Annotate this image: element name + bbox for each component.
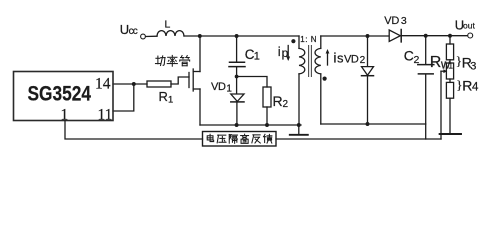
label ip (278, 44, 289, 60)
diode VD2 (362, 36, 374, 124)
label VD3 (384, 15, 407, 27)
node drain junction (198, 34, 202, 38)
svg-text:VD: VD (384, 15, 399, 27)
ground left (290, 125, 308, 135)
resistor R1 (147, 81, 171, 87)
svg-text:R: R (462, 77, 472, 93)
svg-text:1: 1 (226, 84, 232, 95)
node Uout terminal (468, 33, 473, 38)
transformer T1 secondary winding (315, 36, 321, 124)
svg-text:C: C (404, 48, 414, 64)
wire SG3524 pin14 (113, 83, 147, 85)
diode VD3 (389, 30, 467, 42)
label C1 (245, 47, 260, 63)
node Ucc input terminal (141, 34, 146, 39)
svg-text:2: 2 (283, 99, 289, 110)
label R4 (456, 77, 479, 94)
svg-text:VD: VD (344, 54, 359, 66)
potentiometer RW1 (446, 63, 453, 82)
arrow ip (286, 46, 290, 62)
ground right (440, 133, 461, 135)
svg-text:3: 3 (401, 15, 407, 27)
wire SG3524 pin11 (113, 84, 134, 111)
node VD2 top junction (366, 34, 370, 38)
capacitor C2 (418, 36, 434, 139)
label VD2 (344, 54, 366, 66)
svg-text:R: R (273, 93, 283, 109)
transformer T1 core (309, 46, 312, 77)
svg-text:R: R (430, 54, 442, 71)
label RW1 (430, 54, 454, 71)
inductor L (157, 31, 184, 36)
svg-text:1: 1 (61, 106, 69, 123)
node C1/VD1/R2 junction (235, 75, 239, 79)
svg-text:1: 1 (254, 50, 260, 62)
arrow RW1 wiper (441, 69, 447, 139)
wire top rail to primary (184, 35, 299, 37)
svg-text:out: out (463, 21, 475, 31)
svg-text:1: 1 (168, 95, 173, 106)
svg-text:4: 4 (472, 82, 479, 94)
wire Ucc to inductor (146, 35, 157, 37)
IC U1 SG3524 box (14, 72, 114, 121)
svg-text:R: R (159, 89, 168, 104)
label 电压隔离反馈 (207, 134, 272, 143)
svg-text:3: 3 (470, 61, 476, 73)
wire feedback to output (276, 138, 441, 140)
resistor R3 (446, 36, 453, 63)
wire R1 to gate (171, 77, 189, 84)
label R1 (159, 89, 174, 106)
node primary polarity dot (291, 39, 295, 43)
svg-text:i: i (278, 44, 281, 59)
label is (333, 50, 344, 66)
label 功率管 (155, 55, 189, 66)
label VD1 (211, 81, 232, 95)
node primary bottom junction (297, 123, 301, 127)
resistor R4 (446, 82, 453, 133)
svg-text:1: 1 (449, 61, 454, 70)
svg-text:s: s (337, 51, 344, 66)
node divider top junction (448, 34, 452, 38)
svg-text:VD: VD (211, 81, 226, 93)
label R2 (273, 93, 289, 110)
diode VD1 (231, 77, 244, 126)
node VD1 bottom junction (235, 123, 239, 127)
label R3 (456, 53, 477, 73)
feedback block 电压隔离反馈 (203, 132, 277, 147)
svg-text:L: L (165, 19, 171, 31)
transformer T1 primary winding (299, 36, 305, 125)
svg-text:11: 11 (98, 106, 113, 123)
wire pin1 to feedback block (65, 121, 203, 139)
transistor Q1 power MOSFET (189, 69, 200, 91)
svg-text:cc: cc (129, 26, 138, 37)
svg-text:2: 2 (360, 55, 366, 66)
wire bottom rail left (200, 124, 301, 126)
svg-text:2: 2 (414, 54, 420, 66)
node pin wire junction (132, 82, 136, 86)
svg-text:14: 14 (95, 75, 111, 92)
arrow is (326, 49, 330, 65)
node R2 bottom junction (265, 123, 269, 127)
svg-text:SG3524: SG3524 (28, 82, 92, 106)
node secondary polarity dot (323, 77, 327, 81)
svg-text:p: p (282, 46, 289, 60)
node C2 top junction (424, 34, 428, 38)
wire junction to R2 (237, 77, 267, 88)
wire drain (199, 36, 201, 72)
node C1 junction (235, 34, 239, 38)
capacitor C1 (229, 36, 245, 77)
wire secondary bottom rail (321, 123, 426, 125)
node VD2 bottom junction (366, 122, 370, 126)
label Ucc (120, 22, 138, 37)
wire source (199, 89, 201, 125)
label C2 (404, 48, 420, 66)
resistor R2 (263, 87, 271, 125)
label Uout (455, 18, 476, 33)
wire secondary top rail (321, 35, 389, 37)
svg-text:1: N: 1: N (300, 35, 317, 44)
